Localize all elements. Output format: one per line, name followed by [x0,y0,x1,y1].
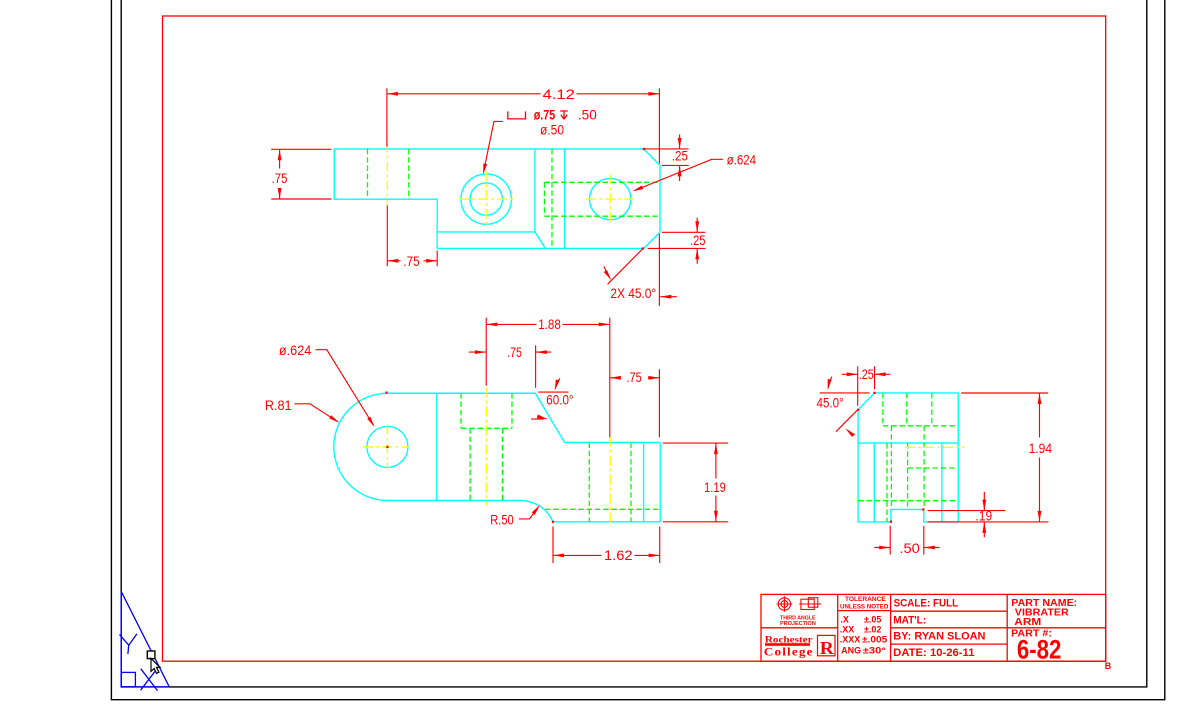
cursor pickbox [147,651,155,659]
svg-text:.25: .25 [859,367,874,382]
svg-text:ø.75: ø.75 [534,108,556,123]
svg-text:.75: .75 [507,345,522,360]
block top edge [565,442,661,444]
dimension .75 to slope [469,345,551,388]
centerline side [905,446,964,448]
boss arc R.81 [334,393,388,500]
svg-text:6-82: 6-82 [1017,635,1062,665]
hidden right hole lines [589,443,631,522]
hidden counterbore lines [461,393,512,500]
defpoint dots front view [386,392,555,523]
angular dimension 60.0 [531,378,569,419]
hidden counterbore side [883,393,956,426]
dimension 1.88 [486,318,610,438]
svg-text:ø.624: ø.624 [279,343,312,358]
leader diameter .624 front [316,350,374,425]
svg-text:R.81: R.81 [265,398,292,413]
hidden slot rectangle [544,182,660,216]
svg-text:SCALE: FULL: SCALE: FULL [894,597,959,609]
svg-text:.50: .50 [578,108,597,123]
svg-text:1.94: 1.94 [1029,441,1053,456]
dimension 1.19 [663,443,728,522]
defpoint dots top view [642,148,645,250]
defpoint dots side view [857,392,924,523]
dimension .25 top chamfer [645,135,689,182]
third angle projection target symbol [777,596,793,612]
svg-text:ARM: ARM [1014,617,1041,628]
svg-text:ø.50: ø.50 [540,123,564,138]
svg-text:.75: .75 [403,254,419,269]
boss hole center dot [386,446,388,448]
angular dimension 45.0 [820,377,870,435]
hidden hole side [887,426,924,522]
svg-text:4.12: 4.12 [543,87,575,102]
svg-text:.75: .75 [627,370,642,385]
boss hole circle [367,426,408,467]
svg-text:MAT'L:: MAT'L: [893,615,926,627]
third angle projection frustum symbol [799,598,821,610]
block chamfer edge vertical [643,443,645,522]
svg-text:.50: .50 [899,541,920,556]
dimension 1.94 [928,393,1049,522]
svg-text:.X: .X [840,615,849,625]
cursor arrow [151,658,160,673]
block bottom edge [553,521,660,523]
UCS X label [141,669,158,691]
svg-text:60.0°: 60.0° [546,392,573,407]
svg-text:TOLERANCE: TOLERANCE [845,596,886,603]
dimension .75 height [271,149,331,199]
svg-text:College: College [764,645,814,659]
center mark right hole [586,174,634,222]
svg-text:.19: .19 [975,508,992,523]
title block row lines [761,611,1106,645]
block right edge [659,443,661,522]
svg-text:R.50: R.50 [490,513,513,528]
leader R.50 [519,507,538,519]
svg-text:.25: .25 [672,148,688,163]
depth symbol [560,111,568,119]
title block outer rectangle [761,594,1106,661]
counterbore outer circle [461,174,511,224]
60 degree slope edge [535,393,564,442]
svg-text:45.0°: 45.0° [817,395,844,410]
fillet R.50 [523,500,553,521]
center mark boss hole [363,425,409,470]
svg-text:1.62: 1.62 [604,548,633,563]
dimension .25 bottom chamfer [648,218,706,264]
svg-text:UNLESS NOTED: UNLESS NOTED [840,604,889,611]
svg-text:±.005: ±.005 [862,635,887,645]
leader diameter .624 top view [635,159,723,190]
svg-text:.XX: .XX [840,624,855,634]
side view edge vertical left [873,443,875,522]
centerline counterbore front [485,388,487,506]
svg-text:1.19: 1.19 [704,480,726,495]
svg-text:ANG: ANG [841,645,861,655]
hidden edge line center [551,149,553,249]
right hole circle [590,178,631,219]
arm top edge [387,392,535,394]
top view chamfer projection diagonal [535,232,545,249]
svg-text:DATE: 10-26-11: DATE: 10-26-11 [893,647,974,659]
svg-text:ø.624: ø.624 [727,152,757,167]
arm bottom edge [387,499,523,501]
top view step edge horizontal [437,231,535,233]
dimension .19 [928,492,1006,538]
UCS Y label [120,634,137,654]
side view step edge [858,442,958,444]
dimension .75 step [387,206,437,267]
UCS origin square [121,672,135,687]
svg-text:BY: RYAN SLOAN: BY: RYAN SLOAN [893,631,985,643]
dimension 1.62 [553,527,660,564]
angular dimension 2X 45.0 [604,234,677,306]
title block column dividers [838,594,1008,661]
dimension .50 [874,526,939,555]
svg-text:PROJECTION: PROJECTION [780,621,816,627]
hidden hole lines left boss [368,149,409,199]
hidden horizontal lines side [858,468,956,501]
centerline right hole front [609,437,611,527]
dimension .25 side [842,366,891,406]
svg-text:B: B [1105,661,1112,671]
svg-text:.25: .25 [690,233,706,248]
boss tangent vertical edge [436,393,438,500]
dimension 4.12 [387,88,660,163]
top view step edge vertical [534,149,536,232]
side view outline [858,393,958,522]
top view part outline [334,149,660,249]
side view edge vertical right [941,443,943,522]
red drawing border [163,16,1106,661]
svg-text:2X 45.0°: 2X 45.0° [610,286,656,301]
centerline left hole [386,143,388,206]
svg-text:.XXX: .XXX [840,635,861,645]
counterbore symbol [508,111,526,119]
UCS paper triangle [121,592,169,687]
counterbore inner circle [470,183,502,215]
svg-text:±.05: ±.05 [864,615,881,625]
svg-text:1.88: 1.88 [538,317,561,332]
dimension .75 right [610,369,660,437]
Rochester College R emblem [818,635,836,657]
top view right face edge vertical [564,149,566,249]
svg-text:.75: .75 [272,171,288,186]
counterbore note leader [484,121,503,171]
center mark counterbore [459,171,516,227]
svg-text:±.02: ±.02 [864,624,881,634]
hidden notch line [545,508,660,510]
leader R.81 [294,404,337,422]
svg-text:R: R [820,638,835,658]
svg-text:±30°: ±30° [863,645,886,655]
